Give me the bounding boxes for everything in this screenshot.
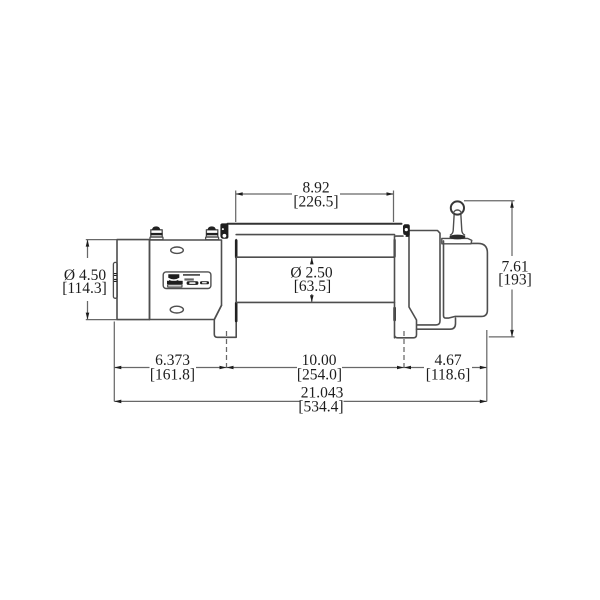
dim 4.50 line (87, 240, 89, 258)
motor tab marks (114, 274, 116, 282)
dim 8.92 extension lines (235, 191, 237, 223)
svg-text:[254.0]: [254.0] (297, 367, 342, 384)
tie bar bottom line (236, 234, 394, 236)
left plate thick segments (235, 241, 238, 258)
gear outer cover (444, 241, 488, 318)
right foot center dashed line (403, 331, 405, 371)
clutch knob (451, 201, 464, 214)
arrows 8.92 (236, 192, 243, 196)
drum bottom line (236, 301, 394, 303)
right plate thick segments (393, 308, 396, 320)
gear housing box (409, 231, 440, 325)
svg-text:[226.5]: [226.5] (293, 194, 338, 211)
label barcode (167, 281, 183, 284)
dim 7.61 extension bottom (489, 336, 515, 338)
gear housing lower lip (417, 318, 456, 329)
arrows 4.50 (86, 240, 90, 247)
motor left foot (214, 302, 236, 337)
clutch knob inner arc (453, 210, 461, 213)
clutch stem (450, 214, 464, 235)
arrows 7.61 (510, 201, 514, 208)
label plate (163, 272, 211, 289)
bottom right extension line (486, 330, 488, 401)
arrows 21.043 (114, 400, 121, 404)
dim 8.92 line (236, 193, 292, 195)
svg-text:[193]: [193] (498, 272, 532, 289)
dim 7.61 line (511, 201, 513, 256)
drum top line (236, 256, 394, 258)
svg-text:[114.3]: [114.3] (62, 280, 107, 297)
dim 2.50 line (311, 257, 313, 263)
motor bolt right (206, 226, 219, 239)
drum support plate left edge (235, 240, 237, 303)
clutch lever bar (442, 238, 472, 243)
label pills (187, 281, 199, 285)
left foot center dashed line (226, 331, 228, 371)
right support plate (395, 236, 417, 338)
bottom dim line row1 (114, 367, 149, 369)
motor oval hole bottom (170, 306, 183, 313)
tie rod end left (dark tab) (220, 223, 228, 238)
clutch stem base ellipse (449, 235, 465, 240)
svg-text:[63.5]: [63.5] (294, 278, 331, 295)
motor oval hole top (171, 247, 184, 253)
label logo (168, 274, 179, 279)
bottom left extension line (113, 322, 115, 402)
svg-text:[534.4]: [534.4] (298, 399, 343, 416)
label text smudges (183, 274, 200, 276)
tie bar top line (228, 223, 402, 225)
dim 21.043 line (114, 400, 299, 402)
svg-text:[161.8]: [161.8] (150, 367, 195, 384)
arrows 2.50 (310, 257, 314, 264)
motor end cap (117, 240, 150, 320)
motor body (150, 240, 222, 320)
motor left tab (113, 262, 117, 298)
tie rod end right (dark tab) (403, 224, 410, 237)
arrows bottom row (114, 366, 121, 370)
svg-text:[118.6]: [118.6] (426, 367, 471, 384)
dim 7.61 extension top (from knob) (464, 200, 515, 202)
dim 4.50 extension lines (86, 239, 117, 241)
motor bolt left (150, 226, 163, 239)
